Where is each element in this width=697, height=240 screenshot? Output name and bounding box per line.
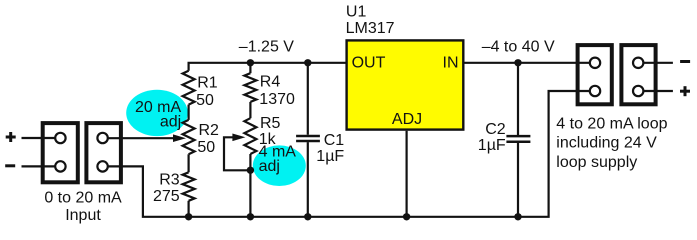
junction node C1 bottom xyxy=(304,213,311,220)
terminal plus (output) xyxy=(680,90,690,93)
svg-text:Input: Input xyxy=(65,207,101,224)
svg-text:IN: IN xyxy=(443,55,459,72)
svg-text:loop supply: loop supply xyxy=(556,154,637,171)
svg-text:1µF: 1µF xyxy=(316,148,344,165)
resistor R1 zigzag xyxy=(183,71,195,105)
svg-text:C2: C2 xyxy=(485,121,506,138)
arrowhead R2 wiper xyxy=(173,134,186,142)
svg-text:0 to 20 mA: 0 to 20 mA xyxy=(44,189,122,206)
pin circle J4-2 xyxy=(633,86,643,96)
svg-text:275: 275 xyxy=(153,188,180,205)
svg-text:–1.25 V: –1.25 V xyxy=(239,38,294,55)
wire C1 bottom lead xyxy=(307,142,309,217)
wire rail to R4 xyxy=(249,63,251,73)
wire C2 bottom lead xyxy=(517,143,519,217)
wire ADJ pin drop xyxy=(406,131,408,217)
svg-text:1µF: 1µF xyxy=(478,137,506,154)
wire R4 to R5 xyxy=(249,102,251,118)
pin circle J1-1 xyxy=(55,133,65,143)
svg-text:adj: adj xyxy=(160,113,181,130)
svg-text:ADJ: ADJ xyxy=(392,111,422,128)
wire IN rail (-4 to 40 V net) xyxy=(464,62,590,64)
svg-text:1370: 1370 xyxy=(259,91,295,108)
svg-text:adj: adj xyxy=(259,158,280,175)
wire input signal to R2 wiper xyxy=(108,137,175,139)
svg-text:R5: R5 xyxy=(260,115,281,132)
wire R5 wiper return xyxy=(224,137,250,170)
wire C2 top lead xyxy=(517,63,519,135)
svg-text:R3: R3 xyxy=(159,171,180,188)
junction node C2 top xyxy=(514,59,521,66)
highlight ellipse (20 mA adj) xyxy=(126,90,188,136)
svg-text:R2: R2 xyxy=(199,122,220,139)
terminal plus (input) xyxy=(6,136,16,139)
junction node R5 wiper xyxy=(247,167,254,174)
connector block input J2 xyxy=(86,123,121,182)
arrowhead R5 wiper xyxy=(232,134,245,142)
pin circle J2-1 xyxy=(97,133,107,143)
resistor R5 zigzag xyxy=(244,118,256,154)
svg-text:–4 to 40 V: –4 to 40 V xyxy=(482,39,555,56)
svg-text:R4: R4 xyxy=(260,74,281,91)
wire output minus stub xyxy=(644,62,673,64)
wire R1 to R2 xyxy=(188,105,190,120)
svg-text:50: 50 xyxy=(197,139,215,156)
resistor R4 zigzag xyxy=(244,73,256,102)
terminal minus (input) xyxy=(5,164,15,167)
capacitor C2 plates xyxy=(506,136,530,142)
pin circle J3-1 xyxy=(590,58,600,68)
capacitor C1 plates xyxy=(296,136,320,141)
junction node R3 bottom xyxy=(185,213,192,220)
resistor R2 zigzag xyxy=(183,120,195,154)
wire R5 to bottom rail xyxy=(249,154,251,217)
svg-text:R1: R1 xyxy=(197,75,218,92)
resistor R3 zigzag xyxy=(183,172,195,201)
connector block input J1 xyxy=(43,123,78,182)
junction node R4 top xyxy=(247,59,254,66)
pin circle J4-1 xyxy=(633,58,643,68)
junction node R5 branch bottom xyxy=(247,213,254,220)
wire C1 top lead xyxy=(307,63,309,135)
wire input plus stub xyxy=(22,137,56,139)
terminal minus (output) xyxy=(680,60,690,63)
svg-text:LM317: LM317 xyxy=(346,20,395,37)
svg-text:OUT: OUT xyxy=(352,55,386,72)
wire R2 to R3 xyxy=(188,154,190,172)
op-amp regulator U1 LM317 body xyxy=(347,40,464,129)
wire bottom rail with input return drop and loop return riser xyxy=(108,91,590,217)
junction node C1 top xyxy=(304,59,311,66)
pin circle J3-2 xyxy=(590,86,600,96)
junction node C2 bottom xyxy=(514,213,521,220)
highlight ellipse (4 mA adj) xyxy=(253,145,306,186)
svg-text:including 24 V: including 24 V xyxy=(556,135,657,152)
svg-text:4 to 20 mA loop: 4 to 20 mA loop xyxy=(556,115,667,132)
svg-text:50: 50 xyxy=(196,92,214,109)
pin circle J2-2 xyxy=(97,161,107,171)
pin circle J1-2 xyxy=(55,161,65,171)
svg-text:U1: U1 xyxy=(346,4,367,21)
connector block output J3 xyxy=(578,45,612,104)
wire input minus stub xyxy=(22,165,56,167)
wire R3 to bottom rail xyxy=(188,201,190,217)
wire top rail (-1.25 V net) xyxy=(189,63,346,71)
wire output plus stub xyxy=(644,90,673,92)
connector block output J4 xyxy=(621,45,655,104)
svg-text:C1: C1 xyxy=(324,132,345,149)
junction node ADJ bottom xyxy=(403,213,410,220)
